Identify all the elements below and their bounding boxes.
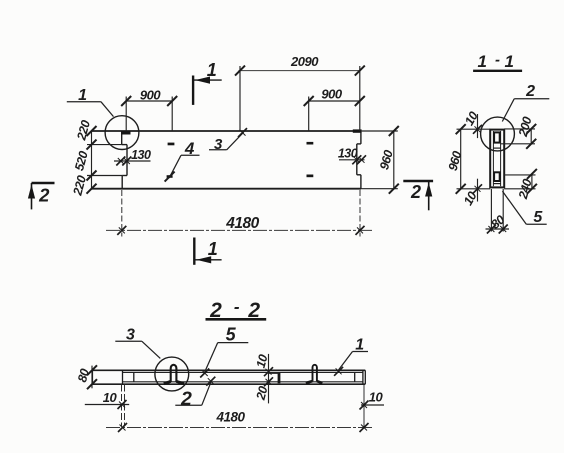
svg-text:5: 5: [226, 325, 237, 345]
node right end profile of panel: [357, 132, 361, 189]
lifting loop 2: [306, 365, 323, 383]
svg-text:130: 130: [131, 148, 151, 162]
dimension 80 (section 1-1 bottom): [486, 189, 510, 234]
detail circle 1 (left end): [105, 116, 139, 150]
title 2-2: [206, 298, 267, 323]
svg-text:1: 1: [478, 52, 487, 71]
bar bottom edge: [93, 383, 366, 385]
dimension 900 right: [304, 87, 365, 131]
node loop marks in plan (4 dashes): [168, 143, 175, 146]
section 1-1 body outline: [490, 130, 504, 188]
lifting loop 1 (in detail circle): [164, 365, 184, 384]
dimension 130 right: [338, 147, 366, 165]
dimension 4180 (2-2 bottom): [106, 410, 374, 433]
dimension 200 (section 1-1 right top): [501, 115, 537, 149]
bar top edge: [93, 369, 366, 371]
svg-text:-: -: [495, 52, 500, 69]
svg-text:10: 10: [103, 390, 118, 405]
dimension 10 (2-2 left): [85, 385, 129, 427]
dimension 10 top (section 1-1): [462, 109, 482, 138]
svg-text:2090: 2090: [290, 54, 319, 69]
svg-text:220: 220: [74, 119, 93, 143]
bar left divider and plate square: [122, 370, 124, 384]
dimension 960 section 1-1: [446, 124, 490, 194]
dimension 10 bottom (section 1-1): [461, 179, 482, 208]
title 1-1: [473, 52, 522, 72]
label 2 leader (2-2): [175, 377, 215, 410]
dimension 130 left: [114, 148, 151, 166]
label 3 with leader: [209, 128, 247, 153]
dimension 240 (section 1-1 right bottom): [504, 169, 537, 201]
detail circle 3: [155, 357, 189, 391]
label 1 leader (2-2): [334, 337, 368, 376]
section mark 2 right: [403, 181, 433, 210]
label 2 leader (section 1-1): [502, 83, 549, 122]
label 1 leader: [67, 87, 114, 117]
svg-text:2: 2: [410, 182, 421, 202]
dimension 4180 plan: [106, 190, 372, 237]
svg-text:2: 2: [180, 388, 192, 410]
label 4 with leader: [165, 139, 200, 182]
label 3 leader (2-2): [115, 327, 160, 359]
svg-text:1: 1: [207, 60, 217, 80]
dimension 10/20 (2-2 middle): [253, 353, 279, 404]
svg-text:200: 200: [516, 115, 535, 139]
bar inner top line: [123, 371, 363, 373]
bar left end face: [92, 370, 94, 384]
section mark 2 left: [28, 183, 55, 209]
svg-text:4180: 4180: [225, 215, 259, 232]
section 1-1 bottom embedded channel: [494, 172, 500, 181]
svg-text:1: 1: [208, 239, 218, 259]
svg-text:220: 220: [70, 174, 89, 198]
embedded plate left (thick mark): [121, 131, 131, 135]
section 1-1 top embedded channel: [494, 132, 500, 142]
bar right end face: [364, 370, 366, 384]
svg-text:960: 960: [377, 148, 396, 171]
wire panel bottom edge: [91, 188, 361, 190]
svg-text:2: 2: [525, 83, 535, 100]
dimension 960 plan right: [361, 126, 399, 194]
embedded plate right (thick mark): [353, 129, 362, 132]
svg-text:900: 900: [321, 87, 342, 102]
svg-text:130: 130: [338, 147, 358, 161]
svg-text:5: 5: [533, 209, 543, 226]
dimension stack left 220/520/220: [70, 119, 122, 198]
label 5 leader (section 1-1): [502, 191, 546, 226]
section 1-1 inner channel lines: [492, 131, 494, 186]
svg-text:2: 2: [38, 185, 50, 206]
svg-text:80: 80: [75, 367, 92, 384]
label 5 leader (2-2): [200, 325, 248, 378]
dimension 2090: [235, 54, 365, 131]
svg-text:10: 10: [369, 390, 384, 405]
bar right plate square: [354, 372, 356, 381]
svg-text:900: 900: [140, 87, 161, 102]
wire panel top edge: [91, 130, 361, 132]
section mark 1 bottom: [194, 238, 221, 265]
dimension 10 (2-2 right): [360, 385, 385, 429]
dimension 900 left: [121, 87, 177, 131]
svg-text:-: -: [234, 298, 240, 317]
svg-text:960: 960: [446, 149, 465, 172]
dimension 80 (2-2 left): [75, 365, 97, 389]
detail circle 2: [481, 117, 515, 151]
svg-text:520: 520: [72, 149, 91, 172]
svg-text:4180: 4180: [215, 410, 245, 425]
svg-text:240: 240: [516, 177, 535, 201]
section mark 1 top: [193, 60, 222, 105]
node left end profile of panel: [122, 134, 127, 189]
svg-text:1: 1: [505, 52, 514, 71]
bar inner bottom line: [123, 381, 363, 383]
